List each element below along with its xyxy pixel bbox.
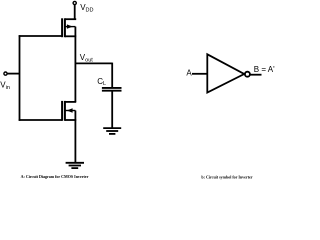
svg-text:b: Circuit symbol for Inverter: b: Circuit symbol for Inverter	[201, 175, 252, 180]
svg-text:B = A': B = A'	[254, 65, 275, 74]
svg-text:A: Circuit Diagram for CMOS In: A: Circuit Diagram for CMOS Inverter	[21, 174, 89, 179]
svg-text:A: A	[186, 68, 192, 77]
